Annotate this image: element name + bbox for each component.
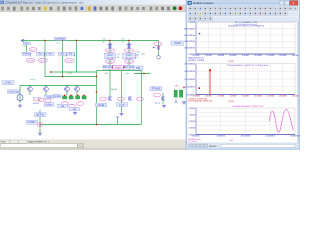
svg-text:TRIM: TRIM bbox=[174, 41, 182, 45]
svg-text:(+)CP: (+)CP bbox=[67, 72, 73, 75]
junction node G3 bbox=[96, 91, 97, 92]
svg-text:1.0000: 1.0000 bbox=[188, 21, 195, 24]
svg-text:-2.0000: -2.0000 bbox=[188, 127, 196, 130]
svg-text:240u: 240u bbox=[135, 53, 139, 56]
svg-text:37.89: 37.89 bbox=[67, 59, 73, 62]
plot3 cursor annotation bbox=[188, 138, 202, 143]
label MM3W text bbox=[111, 88, 117, 91]
svg-text:Variable Baseline: V(OUT) ms²: Variable Baseline: V(OUT) ms² bbox=[232, 105, 264, 108]
wire vertical x96 bbox=[96, 71, 98, 125]
svg-text:COM: COM bbox=[46, 96, 52, 99]
right toolbar rows bbox=[187, 6, 299, 22]
wire stub x117 bottom bbox=[117, 119, 119, 125]
bias bubble M3 bbox=[137, 97, 144, 101]
label TRIM bbox=[171, 41, 184, 45]
junction node H bbox=[96, 124, 97, 125]
svg-text:C2%: C2% bbox=[23, 45, 28, 48]
svg-text:16.000: 16.000 bbox=[292, 54, 299, 57]
wire vertical x121 bottom bbox=[121, 71, 123, 113]
svg-text:Q2N22: Q2N22 bbox=[107, 54, 114, 57]
label COM2 bbox=[44, 103, 54, 107]
label M3 value bbox=[155, 101, 160, 104]
bias bubble I1 bbox=[154, 42, 162, 46]
transistor Q6 bbox=[75, 86, 80, 96]
label mid cluster 1 bbox=[58, 104, 68, 108]
bias bubble Q1 lower bbox=[105, 59, 114, 63]
svg-text:8.0000: 8.0000 bbox=[242, 94, 249, 97]
svg-text:12.0000: 12.0000 bbox=[266, 54, 275, 57]
left status bar bbox=[0, 140, 186, 151]
voltage source V1 label bbox=[23, 42, 30, 45]
svg-text:f (Hz): f (Hz) bbox=[228, 60, 234, 63]
plot1 titles bbox=[228, 21, 265, 27]
svg-text:48.1u: 48.1u bbox=[155, 101, 160, 104]
wire stub right cluster bbox=[162, 93, 164, 104]
transistor Q3 bbox=[28, 86, 33, 96]
node Y symbol bbox=[175, 99, 178, 103]
plot2 cursor annotation bbox=[188, 97, 212, 102]
bias bubble Q1 upper bbox=[105, 49, 114, 53]
wire vertical x26 stub bbox=[26, 42, 28, 53]
svg-text:400.0000m: 400.0000m bbox=[184, 40, 195, 43]
plot3 grid bbox=[196, 108, 295, 135]
svg-text:17N5: 17N5 bbox=[5, 82, 12, 85]
meter boxes green row bbox=[63, 95, 87, 99]
svg-text:200.0000m: 200.0000m bbox=[184, 47, 195, 50]
bias bubble com1 bbox=[38, 98, 44, 102]
wire bottom rail y124 bbox=[40, 124, 141, 126]
transistor Q1 body bbox=[107, 43, 112, 49]
svg-text:4.7u: 4.7u bbox=[135, 56, 139, 59]
net label highlighted mid bbox=[113, 66, 124, 70]
current source I1 bbox=[153, 46, 160, 59]
plot2 x caption bbox=[228, 100, 234, 103]
svg-text:kCOM: kCOM bbox=[33, 102, 39, 105]
svg-text:selected(0.00)_0000_(A): selected(0.00)_0000_(A) bbox=[188, 100, 212, 103]
svg-text:2.0000: 2.0000 bbox=[188, 113, 195, 116]
label DERIV bbox=[35, 113, 47, 117]
label 17N5 left bbox=[2, 81, 14, 85]
source VIN bbox=[17, 95, 23, 101]
svg-text:0.0000: 0.0000 bbox=[188, 120, 195, 123]
svg-text:4.0000: 4.0000 bbox=[217, 94, 224, 97]
right analysis window frame bbox=[186, 0, 300, 150]
bias bubble mid2 bbox=[69, 104, 76, 108]
label Q1 green note bbox=[103, 37, 106, 43]
svg-text:Multisim Analysis: Multisim Analysis bbox=[193, 2, 214, 5]
svg-text:VMID: VMID bbox=[115, 66, 121, 69]
junction node G bbox=[50, 71, 51, 72]
plot1 cursor annotation bbox=[188, 57, 204, 62]
label V1 green note bbox=[23, 45, 28, 48]
svg-text:8.0000: 8.0000 bbox=[242, 54, 249, 57]
svg-text:12.0000: 12.0000 bbox=[266, 94, 275, 97]
net node dot right bbox=[123, 67, 124, 68]
label COM bbox=[44, 95, 54, 99]
svg-text:t (s): t (s) bbox=[229, 139, 233, 142]
bias bubble M2 bbox=[118, 97, 125, 101]
capacitor C0 label bbox=[22, 52, 30, 55]
svg-text:14.0000: 14.0000 bbox=[279, 94, 288, 97]
battery B1 bbox=[174, 90, 183, 97]
label Q1 value bbox=[105, 53, 116, 59]
svg-text:5.0000m: 5.0000m bbox=[217, 135, 226, 138]
bias bubble mid3 bbox=[77, 102, 84, 106]
svg-text:RQ: RQ bbox=[122, 37, 125, 40]
svg-text:DCMA: DCMA bbox=[54, 95, 61, 98]
resistor R7 label bbox=[124, 65, 134, 75]
wire vertical x40 bottom bbox=[39, 110, 41, 132]
wire top supply rail bbox=[21, 40, 159, 42]
wire arrow left end of rail bbox=[21, 39, 24, 42]
wire vertical x62 bbox=[62, 41, 64, 77]
plot1 x labels bbox=[193, 54, 299, 57]
label params P1 F2 bbox=[33, 97, 42, 105]
svg-text:VCC: VCC bbox=[25, 42, 30, 45]
svg-text:Amplitude of A(%/°C) vs Freque: Amplitude of A(%/°C) vs Frequency bbox=[228, 24, 265, 27]
schematic canvas bbox=[0, 12, 186, 139]
label M2 bbox=[117, 103, 128, 107]
bias bubble R1 bbox=[26, 58, 35, 62]
ground battery bbox=[182, 101, 186, 104]
junction node C bbox=[76, 40, 77, 41]
svg-text:14.0000: 14.0000 bbox=[279, 54, 288, 57]
ground M3 bbox=[162, 105, 166, 108]
label R8 branch bbox=[134, 66, 144, 70]
mosfet M3 bbox=[162, 97, 165, 101]
left window title bar bbox=[0, 0, 186, 5]
wire input source stub bbox=[19, 86, 21, 104]
label net annotations mid bbox=[117, 53, 120, 59]
label Q2 value bbox=[123, 53, 136, 59]
svg-text:800.0000m: 800.0000m bbox=[184, 27, 195, 30]
resistor R1 bbox=[30, 52, 45, 56]
svg-text:Page1 /P2/P3/ 4,7 I: Page1 /P2/P3/ 4,7 I bbox=[28, 141, 49, 144]
resistor R3 bbox=[58, 52, 66, 56]
svg-text:Sheet1: Sheet1 bbox=[209, 145, 217, 148]
svg-text:10.0000: 10.0000 bbox=[254, 94, 263, 97]
plot1 x caption bbox=[228, 60, 234, 63]
svg-text:COM1: COM1 bbox=[28, 121, 36, 124]
label COM1 bbox=[26, 120, 38, 124]
right bottom bar bbox=[187, 143, 300, 150]
svg-text:4.0000: 4.0000 bbox=[217, 54, 224, 57]
resistor R4 bbox=[67, 52, 75, 56]
plot2 y labels bbox=[184, 62, 195, 96]
svg-text:Phase Relation of A(%/°C) vs F: Phase Relation of A(%/°C) vs Frequency bbox=[227, 64, 269, 67]
ground M2 bbox=[120, 113, 124, 116]
label M1 bbox=[96, 103, 107, 107]
ground VIN bbox=[18, 104, 22, 107]
bias bubble com2 bbox=[45, 99, 51, 103]
svg-text:6.0000: 6.0000 bbox=[230, 54, 237, 57]
junction node J bbox=[183, 87, 184, 88]
svg-text:R8: R8 bbox=[136, 66, 140, 70]
junction node F bbox=[96, 76, 97, 77]
left toolbar bbox=[0, 5, 186, 12]
svg-text:BF=180: BF=180 bbox=[106, 56, 114, 59]
wire horizontal y70 right bbox=[97, 70, 142, 72]
svg-text:SCH: SCH bbox=[1, 141, 6, 144]
wire vertical x45 bbox=[44, 41, 46, 77]
plot2 red stem bbox=[209, 69, 211, 94]
svg-text:16.000: 16.000 bbox=[292, 94, 299, 97]
label C2N cluster top bbox=[55, 37, 67, 44]
svg-text:C2N1: C2N1 bbox=[23, 53, 30, 56]
svg-text:a=0.5: a=0.5 bbox=[30, 78, 36, 81]
bias readout bubble V1 bbox=[29, 48, 37, 52]
svg-text:(19.953, 1.0000): (19.953, 1.0000) bbox=[188, 59, 204, 62]
wire vertical x110 top bbox=[109, 41, 111, 71]
svg-text:-0.0000: -0.0000 bbox=[192, 94, 200, 97]
left window frame bbox=[0, 0, 186, 150]
bias bubble R2 bbox=[38, 58, 47, 62]
wire current source branch bbox=[158, 41, 160, 56]
junction node K bbox=[143, 73, 144, 74]
resistor R6 label bbox=[103, 65, 113, 75]
plot3 sine wave bbox=[270, 110, 294, 133]
svg-text:0.0000: 0.0000 bbox=[193, 135, 200, 138]
node bottom dot bbox=[39, 124, 41, 126]
svg-text:4.0000: 4.0000 bbox=[188, 107, 195, 110]
bias bubble M4 bbox=[154, 93, 161, 97]
svg-text:COM2: COM2 bbox=[46, 103, 54, 106]
svg-text:0.001Vac: 0.001Vac bbox=[8, 91, 19, 94]
svg-text:1.75u: 1.75u bbox=[135, 51, 140, 54]
plot2 title bbox=[227, 64, 269, 67]
svg-text:Q2N5088: Q2N5088 bbox=[56, 38, 66, 41]
plot3 x caption bbox=[229, 139, 233, 142]
svg-text:15uF: 15uF bbox=[119, 104, 125, 107]
label Q2 green note bbox=[122, 37, 125, 43]
svg-text:4(1): 4(1) bbox=[142, 52, 146, 55]
wire branch y73 right bbox=[134, 73, 151, 75]
svg-text:R6 4k7: R6 4k7 bbox=[103, 65, 113, 69]
ground mid cluster bbox=[73, 112, 77, 115]
wire vertical x141 right side bbox=[140, 71, 142, 125]
plot panel background bbox=[187, 22, 298, 143]
bias bubble M1 bbox=[100, 97, 107, 101]
transistor Q4 bbox=[44, 86, 49, 96]
svg-text:1u: 1u bbox=[117, 56, 119, 59]
svg-text:ckt_A_analysis_1.ms: ckt_A_analysis_1.ms bbox=[235, 21, 258, 24]
bias bubble mid1 bbox=[62, 102, 69, 106]
mosfet M1 bbox=[109, 97, 112, 101]
plot1 y labels bbox=[184, 21, 196, 56]
junction node B bbox=[62, 40, 63, 41]
svg-text:4%: 4% bbox=[126, 72, 129, 75]
plot2 grid bbox=[196, 64, 295, 95]
mosfet M2 bbox=[129, 97, 132, 101]
svg-text:50.0000m: 50.0000m bbox=[185, 86, 195, 89]
svg-text:R7 4k7: R7 4k7 bbox=[124, 65, 134, 69]
junction node D bbox=[109, 40, 110, 41]
wire vertical x110 bottom bbox=[109, 71, 111, 97]
plot3 x labels bbox=[193, 135, 300, 138]
svg-text:36.47: 36.47 bbox=[40, 59, 46, 62]
svg-text:f (Hz): f (Hz) bbox=[228, 100, 234, 103]
svg-text:10.0000: 10.0000 bbox=[254, 54, 263, 57]
wire horizontal y72 bbox=[51, 71, 97, 73]
svg-text:RQ: RQ bbox=[103, 37, 106, 40]
svg-text:6.0000: 6.0000 bbox=[230, 94, 237, 97]
svg-text:10.0000m: 10.0000m bbox=[241, 135, 251, 138]
net node dot left bbox=[112, 67, 113, 68]
label mid cluster 2 bbox=[70, 107, 80, 111]
right title bar bbox=[187, 0, 300, 5]
label ac source left bbox=[8, 90, 20, 94]
svg-text:BF=180: BF=180 bbox=[125, 56, 133, 59]
label a05 text bbox=[30, 78, 36, 81]
plot2 red point bbox=[198, 87, 200, 89]
plot3 y labels bbox=[188, 107, 196, 137]
svg-text:x1_wave: x1_wave bbox=[188, 140, 197, 143]
svg-text:200.0000m: 200.0000m bbox=[184, 62, 195, 65]
wire vertical x129 top bbox=[128, 41, 130, 71]
svg-text:DERIV: DERIV bbox=[36, 114, 44, 117]
label TRIM2 bbox=[150, 87, 162, 91]
svg-text:150.0000m: 150.0000m bbox=[184, 70, 195, 73]
svg-text:TRIM2: TRIM2 bbox=[152, 87, 161, 91]
plot3 title bbox=[232, 105, 264, 108]
label net annotations right column bbox=[135, 51, 146, 60]
wire vertical x76 bbox=[76, 41, 78, 73]
svg-text:600.0000m: 600.0000m bbox=[184, 34, 195, 37]
wire horizontal y76 bbox=[45, 76, 97, 78]
svg-text:(+): (+) bbox=[117, 53, 120, 56]
junction node A bbox=[44, 40, 45, 41]
junction node E bbox=[128, 40, 129, 41]
svg-text:Q2N22: Q2N22 bbox=[126, 54, 133, 57]
transistor Q2 body bbox=[126, 43, 131, 49]
label (+)CP text bbox=[67, 72, 73, 75]
label JP red bbox=[175, 85, 179, 88]
resistor R2 bbox=[44, 52, 55, 56]
bias bubble Q2 lower bbox=[124, 59, 133, 63]
plot1 data marker bbox=[199, 33, 200, 34]
plot1 grid bbox=[196, 22, 295, 54]
bias bubble Q2 upper bbox=[124, 49, 133, 53]
bias bubble bottom node bbox=[37, 123, 43, 127]
svg-text:15.0000m: 15.0000m bbox=[265, 135, 275, 138]
svg-text:0.0000: 0.0000 bbox=[193, 54, 200, 57]
junction node G2 bbox=[62, 76, 63, 77]
glyph x117 bbox=[116, 117, 119, 119]
svg-text:1 MultiSIM BJT Amp sch - [ amp: 1 MultiSIM BJT Amp sch - [ amp_CE_bjt.sc… bbox=[5, 2, 83, 5]
svg-text:2.0000: 2.0000 bbox=[205, 94, 212, 97]
label DCMA bbox=[53, 95, 61, 98]
svg-text:4%: 4% bbox=[105, 72, 108, 75]
svg-text:2k: 2k bbox=[122, 41, 124, 44]
wire horizontal y85 bbox=[20, 85, 97, 87]
bias bubble R3R4 bbox=[65, 58, 74, 62]
svg-text:MM3W: MM3W bbox=[111, 88, 117, 91]
svg-text:36.38: 36.38 bbox=[28, 59, 34, 62]
svg-text:20.0000m: 20.0000m bbox=[290, 135, 300, 138]
svg-text:2.0000: 2.0000 bbox=[205, 54, 212, 57]
svg-text:2k: 2k bbox=[103, 41, 105, 44]
svg-text:100.0000m: 100.0000m bbox=[184, 78, 195, 81]
transistor Q5 bbox=[65, 86, 70, 96]
ground bottom bbox=[38, 132, 42, 135]
right window buttons bbox=[280, 1, 298, 5]
plot2 x labels bbox=[192, 94, 299, 97]
svg-text:M6dB: M6dB bbox=[98, 104, 105, 107]
